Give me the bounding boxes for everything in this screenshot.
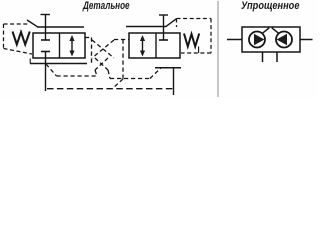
bottom long pilot line (dashed wire) [47, 88, 173, 90]
simplified symbol: right port stub (wire) [300, 39, 313, 41]
valve R blocked port bar (inside) [159, 39, 168, 41]
spring enclosure right (dashed box) [177, 19, 212, 54]
simplified symbol: bottom port stub 1 (wire) [262, 52, 264, 62]
valve L pilot stem vertical (top port line) [45, 15, 47, 41]
connector to lower-left pilot line [95, 70, 97, 76]
connector to lower-right pilot line [108, 70, 110, 79]
pilot diagonal to right main line [150, 68, 161, 79]
valve L position divider [59, 33, 61, 58]
spring W left [13, 32, 30, 45]
simplified symbol: bottom port stub 2 (wire) [276, 52, 278, 62]
pilot vertical right [122, 40, 124, 80]
valve R position divider [155, 33, 157, 58]
simplified symbol: check valve circle left [249, 32, 265, 48]
spring enclosure left (dashed box) [4, 24, 33, 54]
main line left (wire) [30, 63, 87, 65]
lower crossing diagonal X2a [95, 58, 108, 70]
valve R pilot stem vertical (top port line) [163, 15, 165, 40]
lower crossing diagonal X2b [95, 58, 108, 70]
valve R flow arrow (double-headed, left square) [140, 35, 145, 57]
main line right (wire) [155, 67, 181, 69]
spring W right [184, 34, 199, 47]
cross pilot network (dashed wires between valves) [46, 38, 161, 89]
valve R pilot diagonal connector [166, 19, 177, 27]
simplified symbol: pilot diagonal right [272, 28, 279, 33]
valve L pilot line horizontal (wire) [37, 26, 84, 28]
label: Детальное [83, 0, 130, 12]
simplified symbol: check poppet triangle left [254, 34, 265, 45]
pilot vertical left [91, 38, 93, 64]
valve L top T-bar terminal [41, 14, 51, 16]
spring seat tick right [198, 47, 200, 54]
valve body left (2-position valve L) [33, 33, 85, 58]
pilot diagonal from valve L bottom junction [46, 64, 57, 76]
valve L flow arrow (double-headed, right square) [69, 35, 74, 57]
pilot horizontal y78.5 (wire) [110, 78, 150, 80]
label: Упрощенное [241, 0, 299, 12]
pilot branch diagonal to bottom line [113, 79, 123, 88]
valve R top T-bar terminal [159, 14, 168, 16]
simplified symbol: pilot diagonal left [263, 28, 270, 33]
simplified symbol: check valve circle right [276, 32, 292, 48]
valve L pilot diagonal connector [27, 20, 38, 27]
main vertical right (wire) [173, 68, 175, 95]
upper crossing diagonal X1a [92, 40, 114, 58]
simplified symbol: check poppet triangle right [277, 34, 288, 45]
valve L bottom port line (wire) [45, 52, 47, 92]
main line left corner tick [29, 59, 31, 64]
pilot stub into valve R left edge [114, 39, 129, 41]
upper crossing diagonal X1b [92, 40, 114, 58]
pilot horizontal y76 (wire) [57, 75, 98, 77]
panel divider line [217, 1, 219, 97]
pilot stub from valve L right edge [85, 37, 92, 39]
simplified symbol: body rectangle [242, 27, 300, 52]
valve R pilot line horizontal (wire) [126, 26, 166, 28]
simplified symbol: left port stub (wire) [227, 39, 242, 41]
valve L blocked port bar bottom (inside) [41, 51, 50, 53]
valve body right (2-position valve R) [129, 33, 180, 58]
valve L blocked port bar top (inside) [41, 39, 50, 41]
